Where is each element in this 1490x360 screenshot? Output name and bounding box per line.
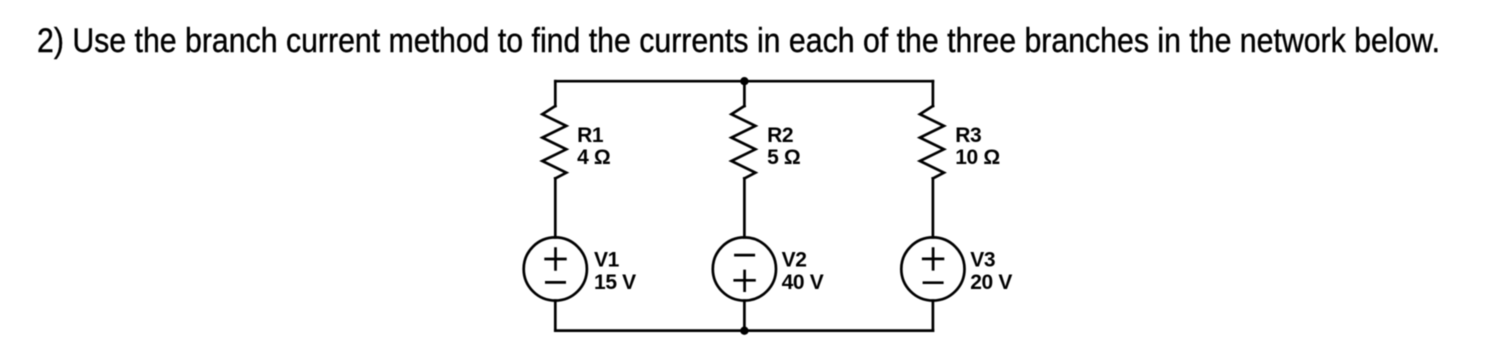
resistor R1: [542, 106, 566, 178]
V1 plus sign: [544, 247, 566, 270]
wire V1 to bottom bus: [554, 301, 557, 331]
svg-text:5 Ω: 5 Ω: [767, 146, 800, 169]
svg-text:20 V: 20 V: [970, 271, 1012, 294]
wire branch3 top (node to R3): [932, 81, 935, 106]
voltage source V1 circle: [524, 237, 587, 300]
svg-text:15 V: 15 V: [594, 271, 636, 294]
wire branch1 top (node to R1): [554, 81, 557, 106]
V1 minus sign: [545, 281, 566, 284]
svg-text:V2: V2: [782, 248, 807, 271]
resistor R2: [731, 106, 755, 178]
wire top bus: [555, 80, 933, 83]
wire R3 to V3: [932, 178, 935, 237]
svg-text:R2: R2: [767, 124, 793, 147]
wire R1 to V1: [554, 178, 557, 237]
junction dot top node: [740, 77, 748, 85]
wire bottom bus: [555, 329, 933, 332]
svg-text:10 Ω: 10 Ω: [955, 146, 1000, 169]
svg-text:40 V: 40 V: [782, 271, 824, 294]
V2 minus sign: [734, 254, 755, 257]
svg-text:V1: V1: [594, 248, 620, 271]
svg-text:2) Use the branch current meth: 2) Use the branch current method to find…: [37, 22, 1440, 60]
V2 plus sign: [733, 270, 755, 292]
wire branch2 top (node to R2): [743, 81, 746, 106]
voltage source V2 circle: [713, 237, 776, 300]
svg-text:V3: V3: [970, 248, 995, 271]
voltage source V3 circle: [901, 237, 964, 300]
svg-text:4 Ω: 4 Ω: [577, 146, 610, 169]
V3 plus sign: [922, 247, 944, 270]
wire V2 to bottom bus: [743, 301, 746, 331]
V3 minus sign: [923, 281, 944, 284]
wire V3 to bottom bus: [932, 301, 935, 331]
svg-text:R3: R3: [955, 124, 981, 147]
junction dot bottom node: [740, 327, 748, 335]
svg-text:R1: R1: [577, 124, 604, 147]
wire R2 to V2: [743, 178, 746, 237]
resistor R3: [920, 106, 944, 178]
